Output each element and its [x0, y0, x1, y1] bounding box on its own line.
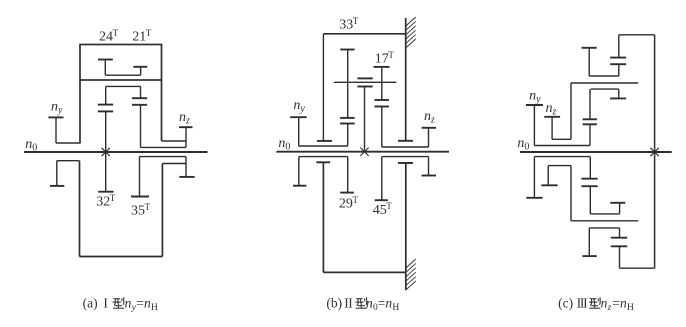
svg-text:T: T	[388, 50, 394, 60]
svg-text:z: z	[430, 114, 435, 125]
svg-text:T: T	[353, 16, 359, 26]
svg-text:I: I	[103, 295, 108, 310]
svg-text:17: 17	[375, 52, 389, 67]
svg-text:III: III	[577, 295, 589, 310]
svg-text:n: n	[278, 136, 285, 151]
svg-text:n: n	[293, 98, 300, 113]
svg-text:33: 33	[339, 17, 353, 32]
svg-text:z: z	[185, 116, 190, 127]
svg-text:(c): (c)	[558, 295, 573, 310]
svg-text:35: 35	[131, 204, 145, 219]
svg-text:21: 21	[132, 29, 146, 44]
svg-text:z: z	[552, 107, 557, 118]
svg-text:0: 0	[32, 142, 37, 153]
svg-text:T: T	[113, 28, 119, 38]
svg-text:nz=nH: nz=nH	[601, 295, 634, 313]
svg-text:24: 24	[99, 29, 113, 44]
svg-text:n: n	[51, 99, 58, 114]
svg-text:n: n	[424, 109, 431, 124]
svg-text:T: T	[146, 28, 152, 38]
svg-text:(b): (b)	[326, 295, 342, 310]
svg-text:29: 29	[339, 197, 353, 212]
svg-text:T: T	[353, 195, 359, 205]
svg-text:y: y	[535, 94, 541, 105]
svg-text:0: 0	[285, 141, 290, 152]
svg-text:0: 0	[524, 141, 529, 152]
svg-text:T: T	[145, 202, 151, 212]
svg-text:n: n	[517, 136, 524, 151]
svg-text:n: n	[179, 110, 186, 125]
svg-text:(a): (a)	[83, 295, 98, 310]
svg-text:T: T	[386, 201, 392, 211]
svg-text:n: n	[546, 101, 553, 116]
svg-text:n0=nH: n0=nH	[366, 295, 399, 313]
svg-text:y: y	[299, 103, 305, 114]
svg-text:T: T	[110, 193, 116, 203]
svg-text:II: II	[344, 295, 353, 310]
svg-text:n: n	[25, 137, 32, 152]
svg-text:ny=nH: ny=nH	[125, 295, 158, 313]
svg-text:45: 45	[373, 203, 387, 218]
svg-text:n: n	[529, 88, 536, 103]
svg-text:y: y	[57, 105, 63, 116]
svg-text:32: 32	[96, 195, 110, 210]
